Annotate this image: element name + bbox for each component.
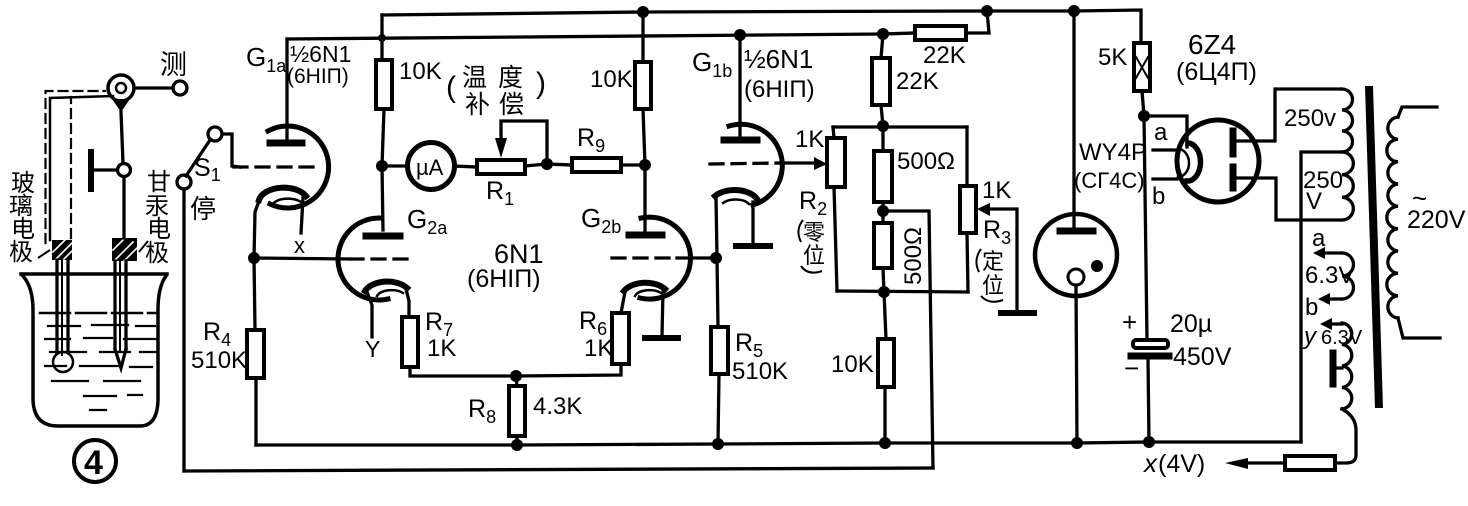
tube G1b envelope	[729, 124, 782, 205]
wire G1a cathode right leg to x point	[301, 198, 303, 233]
node R8 on ground bus	[511, 439, 523, 451]
svg-text:停: 停	[190, 194, 216, 224]
beaker	[21, 274, 167, 426]
transformer T1 core	[1365, 86, 1383, 408]
switch S1 stop contact	[177, 175, 191, 189]
plate G1b	[724, 137, 757, 144]
wire R3 bottom lead	[967, 233, 968, 292]
wire 10K3 top lead	[884, 292, 886, 339]
wire R1 right lead to node B	[525, 164, 547, 166]
svg-text:6.3V: 6.3V	[1305, 262, 1354, 289]
svg-text:WY4P: WY4P	[1079, 139, 1147, 166]
resistor 10K2	[635, 62, 651, 109]
svg-text:R4: R4	[203, 318, 231, 350]
node G top of R2 network	[877, 120, 889, 132]
wire R3 top lead	[965, 127, 968, 186]
wire node H to stop bus	[883, 211, 933, 468]
wire R6 bottom to node E	[516, 364, 621, 376]
grid G2b dashed	[612, 256, 677, 259]
cathode G2b	[624, 283, 665, 291]
wire primary bottom lead	[1398, 318, 1440, 338]
wire meter right lead	[454, 166, 477, 167]
wire G2a cathode left leg to Y point	[367, 292, 372, 337]
anode WY4P	[1060, 228, 1093, 235]
arrow W3 tap b	[1318, 293, 1330, 305]
cathode G1b	[715, 190, 757, 199]
resistor R2	[827, 138, 845, 187]
svg-text:1K: 1K	[982, 177, 1011, 204]
plate 6Z4 lower	[1230, 167, 1237, 188]
wire G2b cathode left leg to R6	[621, 292, 625, 313]
resistor R4	[247, 330, 264, 378]
wire R8 top lead	[516, 376, 517, 386]
wire connector down to calomel	[121, 112, 123, 163]
wire junction to calomel electrode	[122, 177, 125, 238]
transformer T1 heater winding W3 6.3V	[1342, 253, 1354, 299]
wire G2b grid to node F	[677, 256, 716, 259]
wire R9 right lead to node C	[621, 163, 645, 166]
wire 10K3 bottom lead	[883, 387, 886, 443]
plate 6Z4 upper	[1230, 131, 1237, 154]
svg-text:S1: S1	[194, 154, 221, 185]
resistor 10K3	[878, 339, 894, 387]
svg-text:b: b	[1305, 294, 1318, 321]
wire 10K1 bottom to node A	[382, 109, 384, 166]
wire 500ohm lower bottom to node I	[883, 268, 884, 292]
wire R2 network bottom rail	[837, 291, 968, 292]
transformer T1 winding W4 6.3V	[1342, 323, 1352, 409]
svg-text:Y: Y	[365, 336, 380, 362]
gas dot WY4P	[1091, 260, 1103, 272]
resistor R1	[477, 160, 525, 174]
wire S1 to G1a grid	[222, 134, 240, 167]
resistor R9	[572, 158, 621, 172]
node A meter junction	[376, 160, 388, 172]
wire 500ohm upper bottom to node H	[881, 202, 884, 211]
wire G1b cathode left leg to node F	[716, 197, 717, 258]
wire 22K horizontal right lead	[966, 11, 989, 33]
plate G2a	[366, 233, 400, 240]
wire W3 tap a	[1325, 251, 1342, 254]
svg-text:R8: R8	[468, 395, 496, 427]
heater 6Z4	[1178, 149, 1189, 177]
wire 22K horizontal left lead	[883, 33, 915, 34]
resistor R6	[612, 313, 629, 364]
svg-text:R9: R9	[577, 124, 605, 156]
svg-text:250v: 250v	[1284, 105, 1336, 132]
node 22K bend	[981, 5, 993, 17]
resistor R5	[711, 327, 728, 374]
wire G2b cathode right leg to ground	[662, 290, 663, 336]
node 10K3 on ground bus	[879, 437, 891, 449]
svg-text:极: 极	[145, 240, 169, 267]
wire node D to G2a grid	[254, 258, 350, 259]
svg-text:500Ω: 500Ω	[900, 227, 927, 285]
svg-text:22K: 22K	[923, 42, 966, 69]
svg-text:位: 位	[803, 243, 825, 268]
wire node A to G2a plate	[382, 166, 383, 230]
resistor 500ohm upper	[874, 151, 892, 202]
arrow W4 tap	[1320, 318, 1332, 330]
switch S1 pivot contact	[208, 127, 222, 141]
wire 6Z4 heater lead b	[1153, 177, 1177, 180]
node 22K vertical top	[877, 28, 889, 40]
svg-text:1K: 1K	[427, 335, 456, 362]
wire node D to R4	[254, 258, 255, 330]
svg-text:G2a: G2a	[407, 204, 448, 238]
wire G1a plate riser	[285, 39, 288, 140]
ground under G2b	[645, 335, 678, 341]
svg-text:450V: 450V	[1173, 343, 1232, 371]
wire 5K bottom to node J	[1142, 91, 1144, 116]
grid G1a dashed	[234, 165, 318, 168]
svg-text:电: 电	[147, 216, 171, 243]
svg-text:10K: 10K	[831, 351, 874, 378]
svg-text:温度: 温度	[462, 64, 534, 92]
wire S1 stop contact to bus2	[182, 189, 185, 471]
svg-text:(СГ4С): (СГ4С)	[1074, 168, 1145, 193]
node WY4P riser	[1068, 5, 1080, 17]
switch S1 lever	[186, 140, 210, 176]
wire shield bar to junction	[94, 168, 117, 171]
svg-text:1K: 1K	[584, 335, 613, 362]
node J 5K junction	[1138, 110, 1150, 122]
arrow W3 tap a	[1313, 247, 1325, 259]
wire node C to G2b plate	[643, 165, 646, 231]
svg-text:零: 零	[803, 220, 825, 245]
node C1 on ground bus	[1143, 436, 1155, 448]
transformer T1 secondary W2 250V	[1342, 152, 1353, 220]
svg-text:R5: R5	[735, 329, 763, 361]
svg-text:极: 极	[9, 239, 33, 266]
svg-text:R3: R3	[983, 216, 1011, 248]
transformer T1 secondary W1 250v	[1342, 89, 1353, 152]
svg-text:5K: 5K	[1098, 44, 1127, 71]
wiper arrow R2	[814, 157, 827, 170]
resistor 10K1	[376, 60, 392, 109]
svg-text:x: x	[1142, 448, 1158, 478]
grid G2a dashed	[350, 257, 415, 260]
wiper arrow R1	[495, 138, 507, 158]
wire 10K2 bottom to node C	[643, 109, 645, 165]
mark inside 5K	[1136, 57, 1148, 78]
node E R7/R6/R8 junction	[510, 370, 522, 382]
wire R4 bottom to ground bus	[254, 378, 257, 445]
resistor R3	[960, 186, 976, 233]
wire W4 tap top	[1332, 322, 1342, 325]
wire connector to measure terminal	[134, 86, 173, 89]
node 10K1 top	[378, 34, 386, 42]
wire R7 bottom to node E	[410, 367, 516, 376]
wire 500ohm lower top lead	[881, 211, 884, 223]
wire W4 bottom to R10	[1335, 409, 1356, 463]
grid G1b dashed	[710, 163, 781, 164]
svg-text:G1a: G1a	[246, 42, 287, 76]
svg-text:½6N1: ½6N1	[290, 41, 351, 67]
node B R1/R9 junction	[541, 158, 553, 170]
wire G1b cathode right leg to ground	[751, 202, 754, 243]
shield dashed	[46, 91, 106, 243]
wire G1b plate riser	[738, 35, 741, 137]
wire R2 network top rail	[833, 125, 967, 128]
svg-text:R1: R1	[486, 177, 514, 209]
node C R9/10K2 junction	[639, 159, 651, 171]
wire R2 top lead	[833, 127, 834, 138]
junction circle calomel lead	[118, 164, 131, 177]
svg-text:4: 4	[84, 444, 103, 482]
wire top B+ bus	[382, 10, 1141, 43]
svg-text:6.3V: 6.3V	[1321, 327, 1363, 349]
wire 6Z4 heater lead a	[1153, 148, 1177, 151]
wire node J to 6Z4 cathode	[1144, 116, 1187, 147]
wire R8 bottom lead	[515, 436, 518, 445]
node WY4P on ground bus	[1071, 437, 1083, 449]
svg-text:R2: R2	[799, 187, 827, 219]
tube 6Z4 envelope	[1177, 120, 1259, 202]
tube WY4P envelope	[1035, 214, 1117, 296]
svg-text:(6Ц4П): (6Ц4П)	[1176, 58, 1257, 86]
svg-text:定: 定	[982, 249, 1004, 274]
connector J1	[108, 75, 134, 101]
svg-text:10K: 10K	[590, 66, 633, 93]
wire 10K1 riser	[380, 15, 383, 60]
svg-text:x: x	[294, 233, 305, 258]
leader calomel	[139, 241, 148, 252]
svg-text:−: −	[1124, 353, 1139, 383]
wire primary top lead	[1398, 107, 1437, 117]
wire R3 wiper to ground	[990, 209, 1017, 311]
svg-text:(: (	[446, 71, 456, 104]
node 10K2 top	[637, 6, 649, 18]
glass electrode body	[52, 240, 73, 372]
plate G2b	[629, 232, 662, 239]
node D G1a cathode node	[248, 252, 260, 264]
wire node F to R5	[717, 258, 718, 327]
cathode G2a	[365, 282, 407, 291]
node G1b plate riser	[734, 29, 746, 41]
node I bottom of R2 network	[878, 286, 890, 298]
wire C1 to ground bus	[1148, 359, 1149, 442]
svg-text:1K: 1K	[795, 126, 824, 153]
svg-text:½6N1: ½6N1	[744, 44, 813, 74]
wire 22K vertical top lead	[881, 34, 883, 58]
cathode G1a	[259, 188, 306, 200]
leader glass	[38, 250, 50, 258]
resistor R7	[402, 317, 418, 367]
svg-text:510K: 510K	[732, 358, 788, 385]
wiper arrow R3	[977, 203, 990, 216]
svg-text:(6НІП): (6НІП)	[744, 76, 815, 103]
cathode WY4P	[1068, 269, 1084, 285]
water surface	[40, 312, 156, 315]
wire stop bus2	[184, 468, 933, 471]
wire W3 tap b	[1330, 297, 1342, 300]
svg-text:): )	[536, 67, 546, 100]
resistor 22K vertical	[872, 58, 890, 105]
svg-text:6Z4: 6Z4	[1188, 29, 1236, 60]
arrow to x point	[1225, 458, 1248, 469]
ground under G1b	[736, 243, 770, 249]
wire WY4P anode riser	[1072, 11, 1075, 229]
plate G1a	[270, 140, 302, 147]
svg-text:20µ: 20µ	[1170, 310, 1212, 338]
node R5 on ground bus	[712, 438, 724, 450]
tube G2a envelope	[338, 218, 388, 300]
chassis tap W4	[1333, 366, 1342, 369]
svg-text:甘: 甘	[147, 169, 171, 196]
meter uA M1	[408, 143, 455, 190]
wire WY4P cathode to ground bus	[1076, 285, 1077, 443]
resistor 5K	[1134, 43, 1150, 91]
terminal measure contact	[173, 81, 187, 95]
svg-text:µA: µA	[416, 155, 444, 180]
resistor R10 heater dropper	[1285, 456, 1335, 470]
wire 6Z4 upper plate to winding W1	[1237, 89, 1341, 141]
wire HV center tap to ground bus	[1301, 152, 1342, 442]
svg-text:V: V	[1306, 188, 1322, 215]
wire 500ohm upper top lead	[881, 126, 884, 151]
wire 10K2 riser	[641, 12, 644, 62]
svg-text:补偿: 补偿	[465, 91, 533, 119]
transformer T1 primary winding	[1387, 117, 1398, 318]
wire G2a cathode right leg to R7	[406, 289, 409, 317]
svg-text:+: +	[1122, 307, 1137, 337]
wire glass electrode lead	[50, 96, 113, 240]
wire R1 wiper bracket	[501, 121, 547, 164]
resistor 22K horizontal	[915, 26, 966, 40]
wire meter left lead	[387, 164, 408, 167]
node F G2b grid junction	[710, 252, 722, 264]
wire R10 to x arrow	[1248, 461, 1285, 464]
svg-text:(6НІП): (6НІП)	[287, 65, 349, 88]
svg-text:(6НІП): (6НІП)	[467, 265, 541, 293]
wire R9 left lead	[547, 164, 572, 165]
figure number 4	[74, 440, 116, 482]
node H between 500ohm resistors	[877, 205, 889, 217]
svg-text:a: a	[1154, 119, 1168, 146]
shield bar terminal	[88, 152, 94, 189]
wire G1b grid to R2 wiper	[781, 161, 814, 164]
resistor 500ohm lower	[874, 223, 892, 268]
wire ground bus1	[256, 442, 1301, 445]
svg-text:4.3K: 4.3K	[533, 393, 582, 420]
water hatching	[45, 325, 156, 410]
wire 22K vertical bottom to node G	[881, 105, 883, 126]
wire R5 bottom to ground bus	[718, 374, 719, 444]
svg-text:y: y	[1302, 323, 1318, 350]
svg-text:测: 测	[160, 50, 187, 80]
tube G2b envelope	[640, 217, 690, 299]
resistor R8	[509, 386, 525, 436]
svg-text:500Ω: 500Ω	[897, 148, 955, 175]
cathode 6Z4	[1187, 143, 1201, 181]
wire plate rail	[287, 34, 883, 39]
svg-text:(4V): (4V)	[1158, 450, 1205, 478]
capacitor C1 minus plate	[1131, 353, 1169, 360]
wire 6Z4 lower plate to winding W2	[1237, 178, 1341, 220]
svg-text:22K: 22K	[896, 68, 939, 95]
wire node J to capacitor C1	[1144, 116, 1147, 340]
wire G1a cathode left leg to node D	[254, 201, 259, 258]
svg-text:G2b: G2b	[581, 203, 621, 237]
svg-text:a: a	[1312, 225, 1326, 252]
svg-text:10K: 10K	[399, 58, 442, 85]
svg-text:220V: 220V	[1407, 206, 1466, 234]
calomel electrode body	[112, 238, 137, 368]
wire R2 bottom lead	[834, 187, 837, 291]
capacitor C1 plus plate	[1133, 340, 1168, 348]
ground under R3	[1001, 310, 1034, 316]
svg-text:位: 位	[982, 273, 1004, 298]
svg-text:b: b	[1152, 183, 1165, 210]
svg-text:510K: 510K	[191, 347, 247, 374]
tube G1a envelope	[268, 126, 329, 208]
svg-text:G1b: G1b	[692, 47, 732, 81]
